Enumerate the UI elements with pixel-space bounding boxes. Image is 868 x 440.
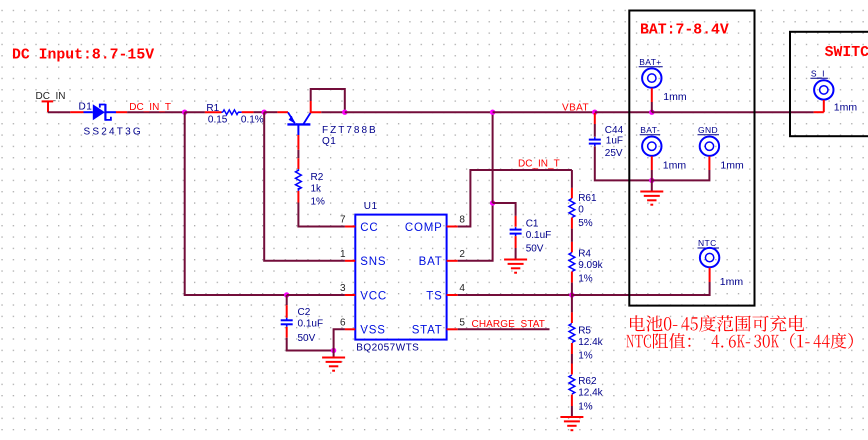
wire R5 to R62 [571, 354, 573, 364]
svg-text:S_I: S_I [811, 68, 825, 78]
svg-text:U1: U1 [364, 201, 378, 212]
wire Q1 base to R2 [297, 150, 299, 158]
svg-text:SS24T3G: SS24T3G [84, 126, 143, 137]
pin pad NTC [709, 268, 711, 282]
junction H TS node [569, 292, 574, 297]
wire ground stem 4 [651, 180, 653, 191]
pin pad BAT+ [651, 88, 653, 102]
wire COMP pin right [458, 170, 572, 227]
pin C1.2 [515, 236, 517, 248]
svg-text:12.4k: 12.4k [578, 387, 603, 398]
wire junction D to VCC pin [287, 294, 345, 296]
text chinese annotation line 1 [630, 315, 804, 332]
svg-text:8: 8 [459, 215, 465, 226]
svg-text:SNS: SNS [360, 256, 386, 268]
wire C1 to ground [515, 248, 517, 259]
svg-text:R61: R61 [578, 193, 597, 204]
capacitor C44 [589, 137, 601, 146]
wire DC_IN_T corner to R61 [571, 170, 573, 188]
wire C44 bottom to gnd rail [595, 146, 652, 180]
svg-text:1%: 1% [578, 351, 593, 362]
svg-text:Q1: Q1 [322, 136, 336, 147]
pad BAT+ [642, 68, 661, 87]
svg-text:1mm: 1mm [663, 159, 687, 171]
wire junction D to C2 [286, 295, 288, 305]
pin R1.2 [242, 111, 254, 113]
svg-text:R62: R62 [578, 376, 597, 387]
resistor R61 body [569, 199, 575, 218]
pin Q1 base [297, 135, 299, 150]
svg-text:DC_IN_T: DC_IN_T [518, 159, 560, 170]
text chinese annotation line 2 [627, 333, 853, 349]
wire riser up to VBAT wire [492, 112, 494, 203]
box switch connector [790, 32, 868, 136]
pin C2.1 [286, 305, 288, 318]
wire junction B to Q1 [264, 111, 277, 113]
svg-text:3: 3 [340, 283, 346, 294]
svg-text:1: 1 [340, 249, 346, 260]
pin R4.2 [571, 272, 573, 283]
port DC_IN [36, 91, 66, 112]
wire R4 to junction H [571, 283, 573, 295]
svg-text:CHARGE_STAT: CHARGE_STAT [472, 319, 546, 330]
svg-text:1uF: 1uF [606, 135, 623, 146]
svg-text:9.09k: 9.09k [578, 260, 603, 271]
ground GND4 [640, 192, 663, 205]
svg-text:7: 7 [340, 215, 346, 226]
svg-text:0: 0 [578, 205, 584, 216]
svg-text:GND: GND [698, 125, 718, 135]
wire junction C to VBAT junction [345, 111, 493, 113]
svg-text:R2: R2 [311, 172, 324, 183]
pin R61.1 [571, 188, 573, 199]
wire gnd rail to GND pad [652, 170, 710, 180]
pin U1 VCC stub [345, 294, 355, 296]
pin R4.1 [571, 242, 573, 253]
svg-text:0.15: 0.15 [208, 114, 228, 125]
svg-text:DC_IN_T: DC_IN_T [129, 102, 171, 113]
junction J gnd rail [649, 178, 654, 183]
pin R5.2 [571, 343, 573, 354]
wire C44 top [594, 124, 596, 137]
svg-text:1mm: 1mm [834, 102, 858, 114]
svg-text:BAT: BAT [419, 256, 443, 268]
pad S1 [814, 80, 833, 99]
capacitor C2 [281, 318, 293, 327]
junction G VBAT [490, 110, 495, 115]
capacitor C1 [510, 227, 522, 236]
pin C2.2 [286, 327, 288, 338]
pin R2.1 [297, 158, 299, 169]
svg-text:0.1uF: 0.1uF [526, 230, 552, 241]
wire VSS to ground junction [334, 329, 345, 350]
wire junction B down to SNS row [264, 112, 345, 261]
box battery connector [629, 11, 754, 306]
pin U1 VSS stub [345, 328, 355, 330]
pin R62.1 [571, 364, 573, 375]
wire junction F to C1 [493, 203, 516, 216]
svg-text:1mm: 1mm [720, 159, 744, 171]
wire BAT- pad down [651, 170, 653, 180]
wire BAT+ junction to switch [652, 111, 814, 113]
wire collector loop [311, 89, 345, 112]
wire R61 to R4 [571, 229, 573, 242]
wire D1 to junction A [127, 111, 185, 113]
resistor R4 body [569, 253, 575, 272]
svg-text:SWITCH: SWITCH [825, 45, 868, 61]
pin U1 COMP stub [447, 226, 458, 228]
resistor R1 leads [222, 111, 223, 113]
wire BAT+ pad down [651, 102, 653, 112]
op-amp U1 BQ2057WTS body [355, 215, 446, 340]
junction F C1 node [490, 200, 495, 205]
junction C [342, 110, 347, 115]
pin D1 cathode [116, 111, 127, 113]
pin R62.2 [571, 395, 573, 407]
svg-text:50V: 50V [526, 243, 544, 254]
pin U1 CC stub [345, 226, 355, 228]
svg-text:C2: C2 [298, 307, 311, 318]
junction B [262, 110, 267, 115]
pad GND [700, 137, 719, 156]
svg-text:6: 6 [340, 318, 346, 329]
pin U1 SNS stub [345, 260, 355, 262]
wire junction I to BAT+ column [595, 111, 652, 113]
svg-text:R1: R1 [206, 103, 219, 114]
pin R1.1 [205, 111, 222, 113]
svg-text:D1: D1 [79, 102, 93, 113]
svg-text:5: 5 [459, 318, 465, 329]
pin Q1 collector [311, 101, 322, 112]
resistor R62 body [569, 375, 575, 394]
svg-text:1k: 1k [311, 183, 323, 194]
resistor R1 body [223, 110, 239, 115]
pin R61.2 [571, 218, 573, 229]
wire STAT [458, 328, 550, 330]
svg-text:4: 4 [459, 283, 465, 294]
svg-text:BAT-: BAT- [640, 125, 660, 135]
wire R1 to junction B [254, 111, 265, 113]
pin U1 BAT stub [447, 260, 458, 262]
resistor R2 body [296, 170, 302, 189]
pin pad S1 [823, 100, 825, 112]
wire R62 to ground [571, 406, 573, 416]
wire C2 to ground junction [287, 338, 334, 351]
svg-text:1%: 1% [578, 273, 593, 284]
pin R2.2 [297, 191, 299, 203]
wire TS to NTC [572, 282, 710, 295]
junction D VCC node [284, 292, 289, 297]
svg-text:R5: R5 [578, 326, 591, 337]
wire junction H to R5 [571, 295, 573, 312]
wire BAT pin to riser [458, 203, 493, 261]
svg-text:2: 2 [459, 249, 465, 260]
svg-text:1%: 1% [311, 196, 326, 207]
junction K BAT+ [649, 110, 654, 115]
pin C44.1 [594, 113, 596, 124]
pad BAT- [642, 137, 661, 156]
resistor R2 leads [297, 169, 299, 171]
svg-text:1%: 1% [578, 402, 593, 413]
svg-text:VCC: VCC [360, 290, 387, 302]
wire TS pin right [458, 294, 572, 296]
junction A [182, 110, 187, 115]
diode D1 SS24T3G [84, 104, 117, 121]
svg-text:50V: 50V [298, 333, 316, 344]
svg-text:STAT: STAT [412, 325, 443, 337]
pad NTC [700, 248, 719, 267]
svg-text:1mm: 1mm [663, 91, 687, 103]
svg-text:25V: 25V [605, 148, 623, 159]
svg-text:BAT+: BAT+ [639, 57, 661, 67]
ground GND3 [560, 417, 583, 430]
wire ground stem 1 [333, 351, 335, 358]
pin C1.1 [515, 216, 517, 227]
svg-text:CC: CC [360, 222, 378, 234]
junction I C44 [592, 110, 597, 115]
wire switch corner red [814, 111, 824, 113]
wire DC_IN to D1 [48, 111, 70, 113]
svg-text:R4: R4 [578, 249, 591, 260]
svg-text:BQ2057WTS: BQ2057WTS [356, 343, 419, 354]
svg-text:0.1%: 0.1% [241, 114, 264, 125]
svg-text:C1: C1 [526, 218, 539, 229]
svg-text:DC Input:8.7-15V: DC Input:8.7-15V [12, 48, 154, 64]
junction E ground node [331, 348, 336, 353]
pin D1 anode [70, 111, 83, 113]
wire R2 to CC pin [298, 203, 345, 227]
wire VBAT junction G to C44 [493, 111, 595, 113]
pin U1 STAT stub [447, 328, 458, 330]
ground GND1 [322, 358, 345, 371]
svg-text:12.4k: 12.4k [578, 337, 603, 348]
svg-text:COMP: COMP [405, 222, 443, 234]
wire junction A to R1 [185, 111, 205, 113]
svg-text:1mm: 1mm [720, 276, 744, 288]
wire junction A down to VCC row [185, 112, 287, 295]
transistor Q1 FZT788B [287, 112, 310, 135]
ground GND2 [504, 260, 527, 273]
svg-text:TS: TS [426, 290, 442, 302]
svg-text:BAT:7-8.4V: BAT:7-8.4V [640, 23, 729, 39]
pin R5.1 [571, 312, 573, 323]
svg-text:DC_IN: DC_IN [36, 91, 66, 102]
svg-text:NTC: NTC [698, 238, 717, 248]
pin U1 TS stub [447, 294, 458, 296]
svg-text:VSS: VSS [360, 325, 385, 337]
pin pad BAT- [651, 156, 653, 170]
svg-text:FZT788B: FZT788B [322, 125, 378, 136]
svg-text:0.1uF: 0.1uF [298, 319, 324, 330]
wire Q1 to junction C [321, 111, 345, 113]
svg-text:5%: 5% [578, 218, 593, 229]
resistor R5 body [569, 324, 575, 343]
pin pad GND [708, 156, 710, 170]
pin Q1 emitter [277, 111, 288, 113]
